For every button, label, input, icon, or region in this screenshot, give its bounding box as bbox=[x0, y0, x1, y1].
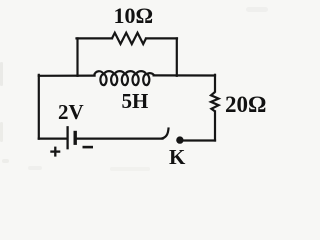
resistor R2 20ohm zigzag bbox=[211, 92, 219, 111]
wire top loop right vertical bbox=[176, 38, 178, 75]
wire battery to switch bbox=[77, 138, 163, 140]
label 2V bbox=[58, 102, 84, 123]
label 5H bbox=[122, 91, 149, 112]
wire left vertical bbox=[38, 75, 40, 139]
scan background noise bbox=[0, 7, 268, 171]
inductor L1 5H coil bbox=[94, 71, 154, 85]
resistor R1 10ohm zigzag bbox=[112, 33, 146, 44]
wire top loop left vertical bbox=[76, 38, 78, 75]
label 20ohm bbox=[225, 93, 266, 116]
wire switch dot to corner bbox=[181, 139, 215, 141]
wire right vertical upper bbox=[214, 75, 216, 92]
label 10ohm bbox=[114, 5, 154, 27]
wire top left segment bbox=[77, 37, 113, 39]
wire middle right bbox=[154, 74, 215, 76]
wire right vertical lower bbox=[214, 111, 216, 140]
battery B1 2V long plate bbox=[66, 127, 68, 148]
switch K contact dot bbox=[176, 136, 183, 143]
battery B1 2V short plate bbox=[73, 133, 76, 144]
switch K lever arm bbox=[162, 127, 169, 138]
battery plus label bbox=[50, 147, 60, 157]
label K bbox=[169, 147, 185, 168]
wire middle left bbox=[39, 74, 95, 76]
wire top right segment bbox=[146, 37, 177, 39]
wire bottom left to battery bbox=[39, 138, 67, 140]
battery minus label bbox=[83, 146, 94, 149]
